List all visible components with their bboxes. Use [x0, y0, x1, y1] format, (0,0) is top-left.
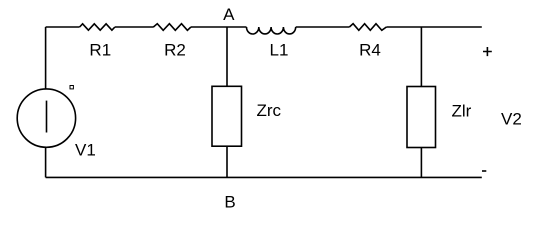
- resistor R1: [80, 24, 115, 60]
- impedance Zlr: [407, 87, 472, 148]
- wire Zrc to bottom rail: [226, 146, 228, 177]
- output voltage label V2: [501, 110, 522, 129]
- resistor R2: [153, 24, 191, 60]
- svg-text:B: B: [224, 193, 235, 212]
- svg-text:Zrc: Zrc: [257, 101, 282, 120]
- svg-text:Zlr: Zlr: [452, 102, 472, 121]
- wire L1 to R4: [296, 26, 350, 28]
- bottom rail wire: [46, 176, 482, 178]
- wire top rail to V1: [45, 27, 47, 89]
- svg-text:A: A: [223, 5, 235, 24]
- wire Zlr to bottom rail: [420, 148, 422, 178]
- svg-text:L1: L1: [270, 41, 289, 60]
- wire R4 to top-right end: [386, 26, 481, 28]
- svg-text:R2: R2: [164, 41, 186, 60]
- wire R1 to R2: [115, 26, 154, 28]
- wire R2 to node A and L1: [191, 26, 247, 28]
- minus terminal label: [482, 170, 486, 172]
- wire V1 to bottom rail: [45, 147, 47, 177]
- inductor L1: [246, 27, 295, 60]
- svg-text:R1: R1: [89, 41, 111, 60]
- svg-text:V1: V1: [75, 141, 96, 160]
- wire top-left corner to R1: [46, 26, 80, 28]
- plus terminal label: [483, 47, 492, 56]
- resistor R4: [349, 24, 386, 60]
- svg-text:R4: R4: [359, 41, 381, 60]
- voltage source V1: [17, 86, 96, 160]
- impedance Zrc: [212, 86, 282, 146]
- node B: [224, 193, 235, 212]
- svg-text:V2: V2: [501, 110, 522, 129]
- wire right branch top: [420, 27, 422, 87]
- wire node A down to Zrc: [226, 27, 228, 86]
- node A: [223, 5, 235, 24]
